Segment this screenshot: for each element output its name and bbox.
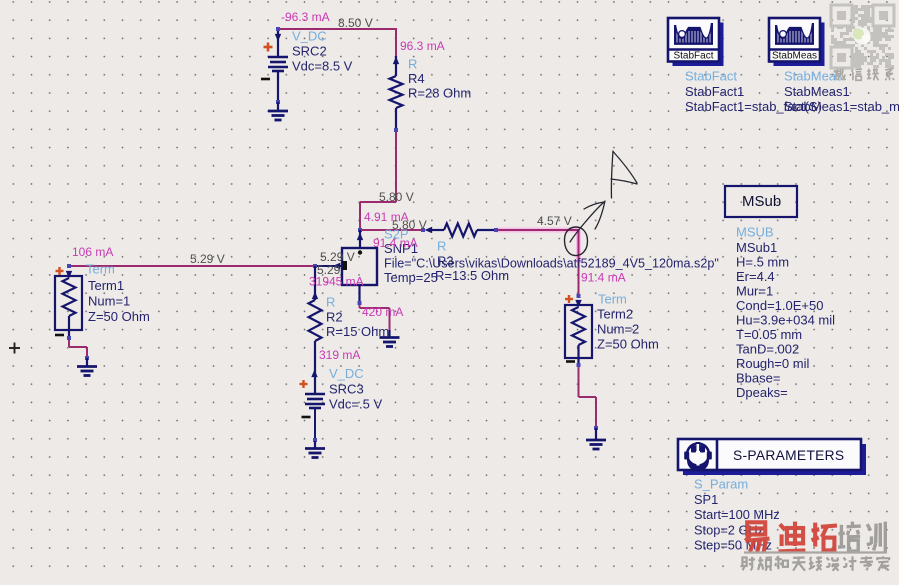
node: Term2 top <box>577 294 581 298</box>
wire: SRC2 top node to R4 top (net Vcc 8.50V) <box>278 28 396 30</box>
minus terminal Term1 <box>55 334 64 337</box>
svg-text:91.4 mA: 91.4 mA <box>373 236 418 250</box>
svg-text:MSUB: MSUB <box>736 225 774 240</box>
svg-text:T=0.05 mm: T=0.05 mm <box>736 327 802 342</box>
gear icon in S-PARAMETERS <box>684 442 712 472</box>
svg-text:Vdc=8.5 V: Vdc=8.5 V <box>292 59 353 74</box>
node: Term2 ground stub <box>594 426 598 430</box>
freehand ellipse around wire corner <box>565 227 588 256</box>
resistor R4 (R=28 Ohm) <box>390 56 403 130</box>
svg-text:Term2: Term2 <box>597 307 633 322</box>
minus terminal Term2 <box>566 360 575 363</box>
port Term2 (Num=2 Z=50 Ohm) <box>565 300 592 365</box>
node: Term1 bottom <box>67 336 71 340</box>
svg-text:Z=50 Ohm: Z=50 Ohm <box>597 337 659 352</box>
svg-text:V_DC: V_DC <box>292 29 327 44</box>
plus terminal Term1 <box>56 270 64 272</box>
wire: Term1 bottom jog to ground <box>68 338 70 347</box>
node: Term2 bottom <box>577 363 581 367</box>
svg-text:R: R <box>437 239 446 254</box>
node: R3 right <box>494 228 498 232</box>
wire: down to R4 <box>395 28 397 56</box>
svg-text:91.4 mA: 91.4 mA <box>581 270 626 284</box>
svg-text:SRC3: SRC3 <box>329 382 364 397</box>
QR code watermark <box>831 5 894 68</box>
svg-text:StabFact: StabFact <box>673 51 713 62</box>
svg-text:-96.3 mA: -96.3 mA <box>281 10 330 24</box>
svg-text:StabMeas1=stab_meas(S): StabMeas1=stab_meas(S) <box>784 99 899 114</box>
simulation block S-PARAMETERS <box>683 444 866 475</box>
ground under Term1 <box>77 358 97 376</box>
wire: SRC3 bottom to ground <box>314 409 316 442</box>
svg-text:StabFact1: StabFact1 <box>685 84 744 99</box>
svg-text:SRC2: SRC2 <box>292 44 327 59</box>
wire: down to junction above SNP1 <box>359 202 361 230</box>
watermark slogan (9 gray hanzi) <box>742 557 755 571</box>
svg-text:5.29 V: 5.29 V <box>190 252 225 266</box>
measurement block StabFact icon <box>673 23 724 67</box>
node A: junction above SNP1 (5.80V) <box>358 228 362 232</box>
wire: Term1 to R2/SNP1 junction (net 5.29V) <box>69 265 315 267</box>
svg-text:R: R <box>326 295 335 310</box>
freehand pen mark (letter A) <box>611 151 637 198</box>
node: R3 left <box>421 228 425 232</box>
svg-text:Term: Term <box>86 262 115 277</box>
wire: R3 right node to corner (net 4.57V) <box>496 229 579 231</box>
svg-text:Hu=3.9e+034 mil: Hu=3.9e+034 mil <box>736 313 835 328</box>
minus terminal SRC2 <box>261 78 270 81</box>
resistor R2 (R=15 Ohm) <box>309 266 322 394</box>
svg-text:Num=1: Num=1 <box>88 294 130 309</box>
node: SRC2 top <box>276 27 280 31</box>
wire: junction to R3 left node (net 5.80V) <box>360 229 423 231</box>
svg-text:TanD=.002: TanD=.002 <box>736 342 799 357</box>
arrowhead into SNP1 pin 1 <box>333 263 341 269</box>
resistor R3 (R=13.5 Ohm, horizontal) <box>425 224 497 237</box>
ground under Term2 <box>586 428 606 449</box>
pin 1 marker of SNP1 <box>343 261 348 270</box>
svg-text:420 mA: 420 mA <box>362 305 403 319</box>
node: SNP1 bottom <box>358 301 362 305</box>
plus terminal SRC2 <box>264 46 273 49</box>
watermark underline <box>744 551 887 553</box>
node: SRC2 bottom <box>276 100 280 104</box>
svg-text:R=28 Ohm: R=28 Ohm <box>408 86 471 101</box>
svg-text:319 mA: 319 mA <box>319 348 360 362</box>
svg-text:R=15 Ohm: R=15 Ohm <box>326 324 389 339</box>
plus terminal Term2 <box>565 298 573 300</box>
svg-text:5.29 V: 5.29 V <box>320 250 355 264</box>
substrate block MSub <box>725 186 797 217</box>
ground under SRC2 <box>268 102 288 120</box>
crosshair cursor mark <box>9 347 20 349</box>
svg-text:V_DC: V_DC <box>329 366 364 381</box>
svg-text:H=.5 mm: H=.5 mm <box>736 255 789 270</box>
node: Term1 top <box>67 264 71 268</box>
svg-text:S_Param: S_Param <box>694 477 748 492</box>
svg-text:StabMeas1: StabMeas1 <box>784 84 850 99</box>
svg-text:Er=4.4: Er=4.4 <box>736 269 775 284</box>
svg-text:R=13.5 Ohm: R=13.5 Ohm <box>435 268 509 283</box>
svg-text:Num=2: Num=2 <box>597 322 639 337</box>
wire: jog left toward S2P top <box>360 201 396 203</box>
svg-text:Z=50 Ohm: Z=50 Ohm <box>88 309 150 324</box>
wire: corner down to Term2 <box>578 229 580 296</box>
svg-text:Bbase=: Bbase= <box>736 371 780 386</box>
svg-text:4.57 V: 4.57 V <box>537 214 572 228</box>
svg-text:96.3 mA: 96.3 mA <box>400 39 445 53</box>
svg-text:Start=100 MHz: Start=100 MHz <box>694 507 780 522</box>
measurement block StabMeas icon <box>774 23 825 67</box>
svg-text:R4: R4 <box>408 71 425 86</box>
node B: junction 5.29V (Term1/R2/SNP1) <box>313 264 317 268</box>
wire: Term2 bottom jog to ground <box>578 365 580 397</box>
svg-text:StabFact: StabFact <box>685 69 737 84</box>
svg-text:Mur=1: Mur=1 <box>736 284 773 299</box>
watermark logo red hanzi 易迪拓 + gray 培训 <box>746 522 770 553</box>
wire: selection halo on net 4.57V <box>496 228 579 233</box>
svg-text:Term: Term <box>598 292 627 307</box>
ground under SRC3 <box>305 441 325 458</box>
node: R4 bottom <box>394 128 398 132</box>
wire: SNP1 bottom pin jog to ground <box>359 303 361 308</box>
port Term1 (Num=1 Z=50 Ohm) <box>55 271 82 338</box>
svg-text:8.50 V: 8.50 V <box>338 16 373 30</box>
svg-text:R: R <box>408 57 417 72</box>
svg-text:R2: R2 <box>326 310 343 325</box>
svg-text:Rough=0 mil: Rough=0 mil <box>736 356 809 371</box>
svg-text:5.80 V: 5.80 V <box>379 190 414 204</box>
wire: R4 bottom down <box>395 130 397 202</box>
svg-text:StabMeas: StabMeas <box>772 51 817 62</box>
svg-text:MSub1: MSub1 <box>736 240 777 255</box>
node: Term1 ground stub <box>85 356 89 360</box>
svg-text:R3: R3 <box>437 254 454 269</box>
dc source SRC2 (V_DC Vdc=8.5V) <box>268 29 288 102</box>
svg-text:Term1: Term1 <box>88 278 124 293</box>
freehand arrow annotation <box>570 201 605 242</box>
dc source SRC3 (V_DC Vdc=.5V) <box>305 370 325 409</box>
svg-text:SP1: SP1 <box>694 492 718 507</box>
ground for SNP1 reference pin <box>380 330 400 347</box>
svg-text:Temp=25: Temp=25 <box>384 270 438 285</box>
watermark text wechat (4 gray hanzi) <box>834 69 845 81</box>
svg-text:Dpeaks=: Dpeaks= <box>736 385 788 400</box>
svg-text:Vdc=.5 V: Vdc=.5 V <box>329 397 382 412</box>
svg-text:Cond=1.0E+50: Cond=1.0E+50 <box>736 298 823 313</box>
s2p block SNP1 <box>342 230 377 303</box>
svg-text:MSub: MSub <box>742 193 781 210</box>
node: SRC3 bottom <box>313 438 317 442</box>
svg-text:-45 mA: -45 mA <box>325 274 364 288</box>
minus terminal SRC3 <box>302 416 311 419</box>
plus terminal SRC3 <box>300 383 308 385</box>
svg-text:S-PARAMETERS: S-PARAMETERS <box>733 448 844 463</box>
wire: junction to SNP1 pin 1 <box>315 265 342 267</box>
svg-text:106 mA: 106 mA <box>72 245 113 259</box>
